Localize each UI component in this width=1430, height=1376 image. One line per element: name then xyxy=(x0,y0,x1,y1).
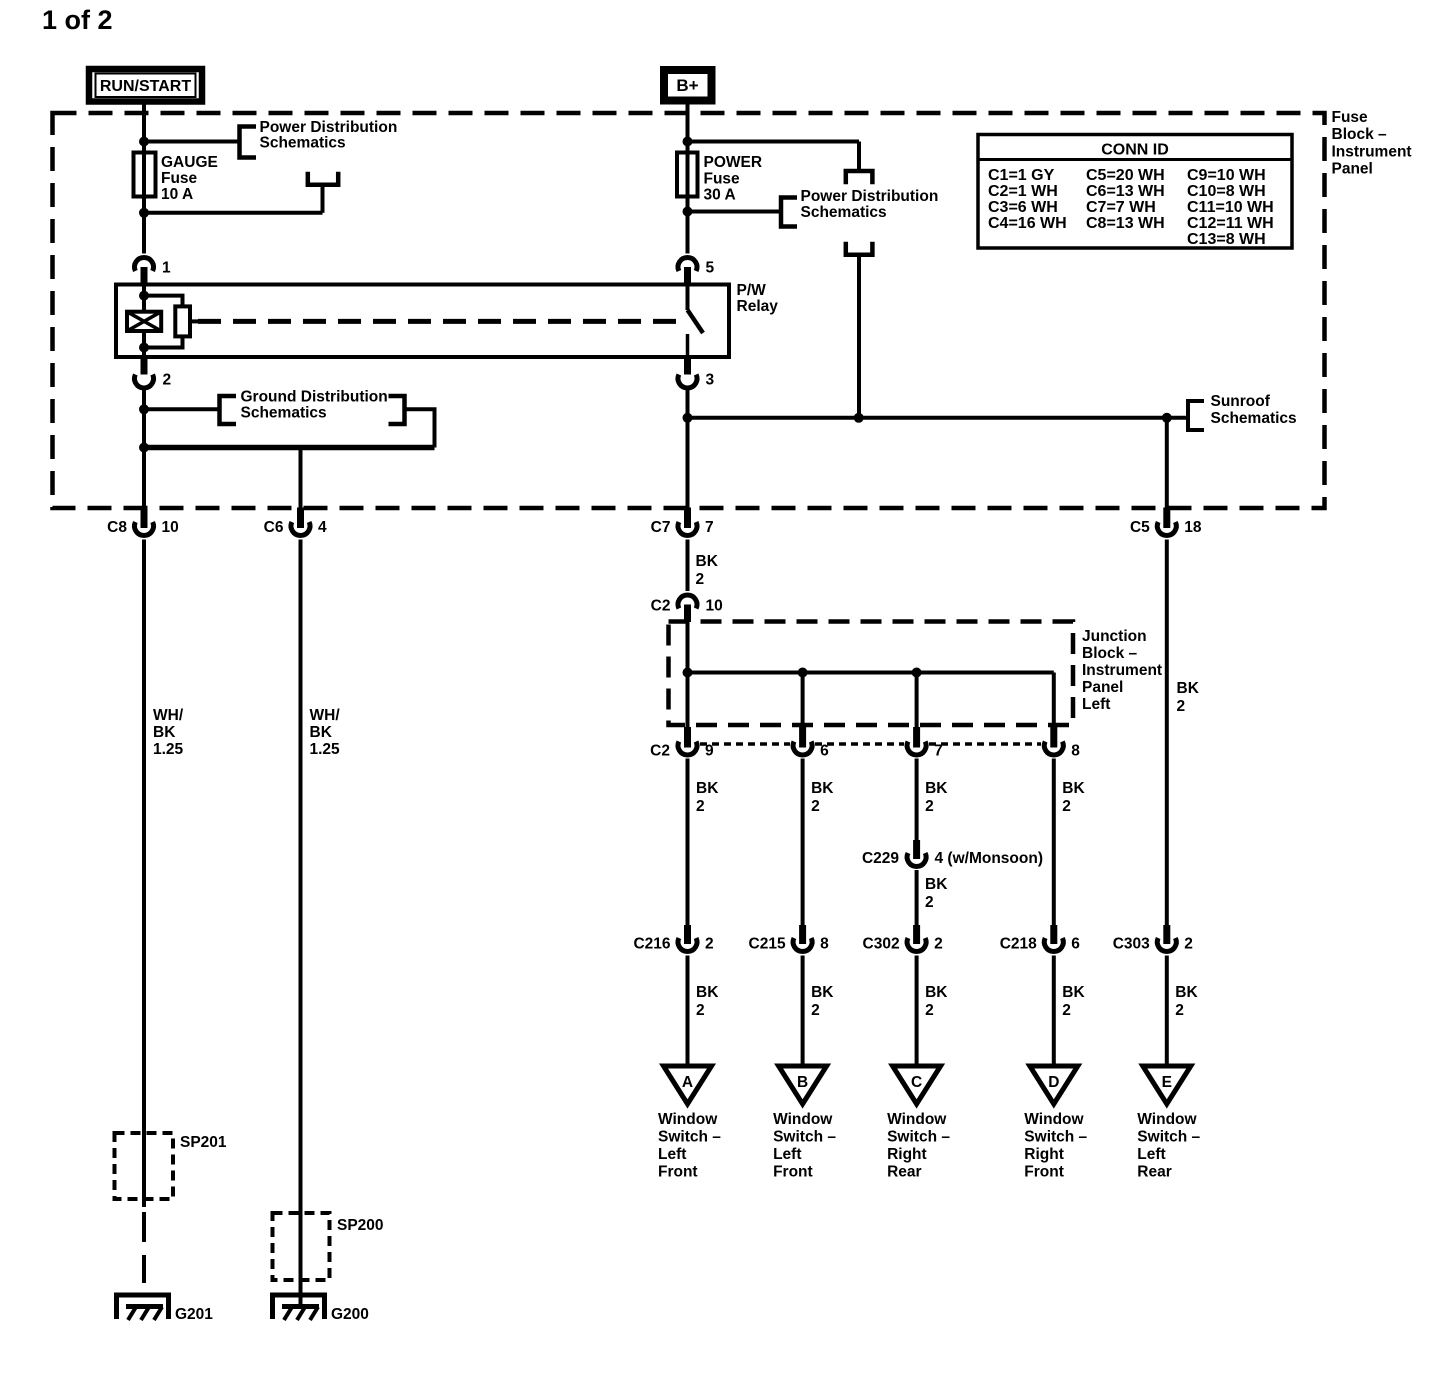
svg-text:1.25: 1.25 xyxy=(153,741,184,758)
svg-text:Ground Distribution: Ground Distribution xyxy=(241,389,388,406)
ground G201 xyxy=(117,1295,169,1320)
off-page triangle B xyxy=(779,1066,827,1104)
wire Ground Distribution return loop xyxy=(142,409,435,447)
wire label BK 2 xyxy=(1175,984,1198,1019)
label POWER Fuse 30 A xyxy=(704,154,763,204)
svg-text:C: C xyxy=(911,1074,922,1091)
svg-text:Left: Left xyxy=(773,1146,801,1163)
svg-text:2: 2 xyxy=(696,1002,705,1019)
svg-text:C2=1 WH: C2=1 WH xyxy=(988,183,1058,200)
connector C302 pin 2 xyxy=(907,925,926,951)
svg-text:Switch –: Switch – xyxy=(1024,1129,1087,1146)
label GAUGE Fuse 10 A xyxy=(161,154,218,203)
svg-text:8: 8 xyxy=(1071,743,1080,760)
svg-text:BK: BK xyxy=(1177,680,1200,697)
svg-text:3: 3 xyxy=(706,372,715,389)
svg-text:Schematics: Schematics xyxy=(801,204,887,221)
wire to Power Distribution reference (left) xyxy=(144,140,238,144)
wire label WH/ BK 1.25 (left) xyxy=(153,707,184,758)
wire label BK 2 (C5 segment) xyxy=(1177,680,1200,715)
terminal RUN/START xyxy=(89,69,202,102)
svg-text:4 (w/Monsoon): 4 (w/Monsoon) xyxy=(935,850,1044,867)
svg-text:2: 2 xyxy=(1175,1002,1184,1019)
wire C2 pin 8 down xyxy=(1052,759,1056,927)
connector C2 pin 8 (junction block output) xyxy=(1044,727,1063,755)
svg-text:Rear: Rear xyxy=(1137,1164,1171,1181)
svg-text:Schematics: Schematics xyxy=(260,135,346,152)
svg-text:BK: BK xyxy=(1175,984,1198,1001)
connector C6 pin 4 xyxy=(291,508,310,536)
wire B+ to POWER fuse xyxy=(683,102,693,254)
wire ground bus down to C6 xyxy=(299,448,303,511)
svg-text:Instrument: Instrument xyxy=(1082,662,1162,679)
svg-text:BK: BK xyxy=(696,984,719,1001)
wire label BK 2 (C7 segment) xyxy=(696,553,719,588)
bracket right for Ground Distribution Schematics xyxy=(389,396,405,424)
wire C229 to C302 xyxy=(915,870,919,926)
off-page triangle E xyxy=(1143,1066,1191,1104)
svg-text:Left: Left xyxy=(1137,1146,1165,1163)
svg-text:Left: Left xyxy=(658,1146,686,1163)
wire label BK 2 xyxy=(925,984,948,1019)
svg-text:POWER: POWER xyxy=(704,154,763,171)
svg-text:BK: BK xyxy=(310,724,333,741)
relay control dashed line xyxy=(198,319,679,324)
svg-text:Front: Front xyxy=(773,1164,813,1181)
svg-text:Power Distribution: Power Distribution xyxy=(801,188,939,205)
svg-text:30 A: 30 A xyxy=(704,187,736,204)
connector C2 pin 10 xyxy=(678,595,697,622)
wire label BK 2 xyxy=(811,780,834,815)
connector pin 3 (relay switch output) xyxy=(678,357,697,388)
wire to window switch xyxy=(1052,956,1056,1074)
svg-text:Window: Window xyxy=(658,1111,718,1128)
wire bus to pin 7 xyxy=(915,673,919,728)
svg-text:6: 6 xyxy=(820,743,829,760)
relay coil xyxy=(127,312,161,331)
svg-text:D: D xyxy=(1048,1074,1059,1091)
connector C2 pin 9 (junction block output) xyxy=(678,727,697,755)
label Ground Distribution Schematics xyxy=(241,389,388,422)
svg-text:RUN/START: RUN/START xyxy=(100,78,191,95)
wire C2 pin 6 down xyxy=(801,759,805,927)
relay switch contact xyxy=(688,285,704,358)
label Junction Block - Instrument Panel Left xyxy=(1082,628,1162,713)
svg-text:Fuse: Fuse xyxy=(704,171,741,188)
wire label BK 2 xyxy=(696,984,719,1019)
connector C8 pin 10 xyxy=(135,508,154,536)
svg-text:C229: C229 xyxy=(862,850,899,867)
wire label BK 2 xyxy=(1062,780,1085,815)
wire to window switch xyxy=(686,956,690,1074)
svg-text:C7: C7 xyxy=(651,519,671,536)
svg-text:2: 2 xyxy=(696,798,705,815)
svg-text:Window: Window xyxy=(887,1111,947,1128)
svg-text:BK: BK xyxy=(696,780,719,797)
wire B+ node to off-page cup (right top) xyxy=(688,142,860,172)
wire node to sunroof reference xyxy=(688,413,1187,423)
svg-text:Right: Right xyxy=(1024,1146,1064,1163)
svg-text:C2: C2 xyxy=(650,743,670,760)
connector C2 dashed tie line xyxy=(700,742,1041,746)
svg-text:A: A xyxy=(682,1074,693,1091)
connector C2 pin 7 (junction block output) xyxy=(907,727,926,755)
wire C7 to junction block C2 xyxy=(686,540,690,592)
svg-text:2: 2 xyxy=(925,798,934,815)
svg-text:6: 6 xyxy=(1071,936,1080,953)
connector C5 pin 18 xyxy=(1157,508,1176,536)
svg-text:C215: C215 xyxy=(749,936,786,953)
svg-text:B: B xyxy=(797,1074,808,1091)
connector C216 pin 2 xyxy=(678,925,697,951)
terminal B+ xyxy=(664,70,712,101)
svg-text:BK: BK xyxy=(925,876,948,893)
svg-text:C2: C2 xyxy=(651,598,671,615)
svg-text:SP201: SP201 xyxy=(180,1134,227,1151)
connector C229 pin 4 xyxy=(907,840,926,866)
svg-text:2: 2 xyxy=(1177,698,1186,715)
wire C2 pin 9 down xyxy=(686,759,690,927)
svg-text:2: 2 xyxy=(925,894,934,911)
bracket for Sunroof Schematics xyxy=(1188,401,1204,430)
svg-text:Switch –: Switch – xyxy=(773,1129,836,1146)
connector pin 5 (relay switch supply) xyxy=(678,258,697,285)
wire fuse output to off-page cup (left) xyxy=(144,185,323,213)
svg-text:C3=6 WH: C3=6 WH xyxy=(988,199,1058,216)
svg-text:Sunroof: Sunroof xyxy=(1211,393,1271,410)
connector pin 2 (relay coil ground) xyxy=(135,357,154,388)
svg-text:2: 2 xyxy=(705,936,714,953)
svg-text:Panel: Panel xyxy=(1082,679,1123,696)
svg-text:Block –: Block – xyxy=(1332,126,1388,143)
CONN ID table xyxy=(978,135,1292,249)
wire C2 pin 7 down to C229 xyxy=(915,759,919,843)
off-page triangle C xyxy=(893,1066,941,1104)
svg-text:Switch –: Switch – xyxy=(658,1129,721,1146)
connector C303 pin 2 xyxy=(1157,925,1176,951)
connector C215 pin 8 xyxy=(793,925,812,951)
label P/W Relay xyxy=(737,282,779,315)
wire label BK 2 xyxy=(1062,984,1085,1019)
svg-text:BK: BK xyxy=(925,984,948,1001)
off-page cup symbol (right top) xyxy=(846,171,873,184)
svg-text:Window: Window xyxy=(1024,1111,1084,1128)
svg-text:C10=8 WH: C10=8 WH xyxy=(1187,183,1266,200)
svg-text:C9=10 WH: C9=10 WH xyxy=(1187,167,1266,184)
wire C5 pin 18 down to C303 xyxy=(1165,540,1169,927)
svg-text:BK: BK xyxy=(811,780,834,797)
svg-text:Window: Window xyxy=(773,1111,833,1128)
off-page triangle D xyxy=(1030,1066,1078,1104)
wire C2 pin 10 through bus to pin 9 xyxy=(686,622,690,727)
dashed wire SP201 to G201 xyxy=(142,1212,146,1283)
wire to window switch xyxy=(1165,956,1169,1074)
svg-text:Schematics: Schematics xyxy=(241,405,327,422)
POWER fuse F2 xyxy=(677,153,698,197)
svg-text:Relay: Relay xyxy=(737,298,779,315)
svg-text:Fuse: Fuse xyxy=(161,170,198,187)
svg-text:10 A: 10 A xyxy=(161,186,193,203)
svg-text:Rear: Rear xyxy=(887,1164,921,1181)
wire bus to pin 6 xyxy=(801,673,805,728)
svg-text:BK: BK xyxy=(925,780,948,797)
splice SP201 dashed box xyxy=(115,1133,174,1199)
svg-text:CONN ID: CONN ID xyxy=(1101,142,1169,159)
svg-text:BK: BK xyxy=(1062,984,1085,1001)
svg-text:E: E xyxy=(1162,1074,1172,1091)
wire relay pin 2 down to C8 xyxy=(139,390,149,510)
label Window Switch B xyxy=(773,1111,836,1181)
svg-text:C1=1 GY: C1=1 GY xyxy=(988,167,1055,184)
svg-text:C216: C216 xyxy=(633,936,670,953)
svg-text:B+: B+ xyxy=(676,76,698,95)
svg-text:C11=10 WH: C11=10 WH xyxy=(1187,199,1274,216)
svg-text:C6=13 WH: C6=13 WH xyxy=(1086,183,1165,200)
svg-text:C12=11 WH: C12=11 WH xyxy=(1187,215,1274,232)
label Power Distribution Schematics (right) xyxy=(801,188,939,221)
bracket for Power Distribution Schematics (left) xyxy=(240,127,257,158)
off-page cup symbol (left) xyxy=(308,172,338,185)
svg-text:2: 2 xyxy=(1062,798,1071,815)
svg-text:C7=7 WH: C7=7 WH xyxy=(1086,199,1156,216)
label Sunroof Schematics xyxy=(1211,393,1297,427)
svg-text:P/W: P/W xyxy=(737,282,767,299)
connector C2 pin 6 (junction block output) xyxy=(793,727,812,755)
svg-text:C218: C218 xyxy=(1000,936,1037,953)
svg-text:C5=20 WH: C5=20 WH xyxy=(1086,167,1165,184)
svg-text:Window: Window xyxy=(1137,1111,1197,1128)
svg-text:GAUGE: GAUGE xyxy=(161,154,218,171)
connector C218 pin 6 xyxy=(1044,925,1063,951)
svg-text:BK: BK xyxy=(696,553,719,570)
wire relay coil vertical xyxy=(139,285,149,358)
svg-text:2: 2 xyxy=(934,936,943,953)
svg-text:7: 7 xyxy=(705,519,714,536)
svg-text:Power Distribution: Power Distribution xyxy=(260,119,398,136)
ground G200 xyxy=(273,1295,325,1320)
splice SP200 dashed box xyxy=(273,1213,330,1280)
svg-text:Instrument: Instrument xyxy=(1332,144,1412,161)
svg-text:Fuse: Fuse xyxy=(1332,109,1369,126)
wire label BK 2 xyxy=(925,780,948,815)
svg-text:18: 18 xyxy=(1184,519,1202,536)
svg-text:BK: BK xyxy=(1062,780,1085,797)
wire to window switch xyxy=(915,956,919,1074)
svg-text:2: 2 xyxy=(1184,936,1193,953)
svg-text:Junction: Junction xyxy=(1082,628,1147,645)
svg-text:C13=8 WH: C13=8 WH xyxy=(1187,231,1266,248)
wire bus to pin 8 xyxy=(1052,673,1056,728)
wire to window switch xyxy=(801,956,805,1074)
svg-text:2: 2 xyxy=(925,1002,934,1019)
wire label WH/ BK 1.25 (second) xyxy=(310,707,341,758)
wire fuse output to Power Distribution reference (right) xyxy=(688,210,780,214)
svg-text:Front: Front xyxy=(1024,1164,1064,1181)
wire to Ground Distribution reference xyxy=(144,407,218,411)
junction block - instrument panel left dashed outline xyxy=(669,622,1074,726)
svg-text:C5: C5 xyxy=(1130,519,1150,536)
svg-text:C8: C8 xyxy=(107,519,127,536)
svg-text:9: 9 xyxy=(705,743,714,760)
svg-text:WH/: WH/ xyxy=(153,707,184,724)
svg-text:2: 2 xyxy=(811,1002,820,1019)
off-page cup symbol (right bottom) xyxy=(846,242,873,255)
relay armature loop xyxy=(144,296,198,348)
svg-text:1.25: 1.25 xyxy=(310,741,341,758)
wire relay pin 3 to C7 and sunroof node xyxy=(683,390,693,510)
wire RUN/START to GAUGE fuse xyxy=(139,102,149,254)
svg-text:4: 4 xyxy=(318,519,327,536)
wire label BK 2 (C229 segment) xyxy=(925,876,948,911)
label Window Switch E xyxy=(1137,1111,1200,1181)
wire label BK 2 xyxy=(811,984,834,1019)
svg-text:10: 10 xyxy=(706,598,723,615)
wire C8 pin 10 down to SP201 xyxy=(142,540,146,1208)
connector C7 pin 7 xyxy=(678,508,697,536)
bracket for Power Distribution Schematics (right) xyxy=(781,198,797,227)
junction block internal bus xyxy=(683,668,1054,678)
svg-text:2: 2 xyxy=(696,571,705,588)
svg-text:Front: Front xyxy=(658,1164,698,1181)
svg-text:Left: Left xyxy=(1082,696,1110,713)
P/W relay K1 box xyxy=(116,285,729,358)
wire off-page cup down to relay output node xyxy=(857,255,861,418)
svg-text:C303: C303 xyxy=(1113,936,1150,953)
svg-text:C8=13 WH: C8=13 WH xyxy=(1086,215,1165,232)
svg-text:Panel: Panel xyxy=(1332,161,1373,178)
wire node down to C5 xyxy=(1165,418,1169,510)
label Window Switch C xyxy=(887,1111,950,1181)
svg-text:C302: C302 xyxy=(863,936,900,953)
svg-text:SP200: SP200 xyxy=(337,1217,384,1234)
wire C6 pin 4 down to G200 xyxy=(299,540,303,1308)
svg-text:2: 2 xyxy=(811,798,820,815)
svg-text:1: 1 xyxy=(162,260,171,277)
svg-text:WH/: WH/ xyxy=(310,707,341,724)
label Window Switch D xyxy=(1024,1111,1087,1181)
label Window Switch A xyxy=(658,1111,721,1181)
svg-text:BK: BK xyxy=(811,984,834,1001)
svg-text:10: 10 xyxy=(162,519,179,536)
svg-text:G201: G201 xyxy=(175,1306,213,1323)
wire label BK 2 xyxy=(696,780,719,815)
svg-text:G200: G200 xyxy=(331,1306,369,1323)
label Power Distribution Schematics (left) xyxy=(260,119,398,152)
svg-text:1 of 2: 1 of 2 xyxy=(42,5,113,35)
svg-text:BK: BK xyxy=(153,724,176,741)
off-page triangle A xyxy=(664,1066,712,1104)
svg-text:2: 2 xyxy=(1062,1002,1071,1019)
bracket left for Ground Distribution Schematics xyxy=(220,396,237,424)
svg-text:8: 8 xyxy=(820,936,829,953)
label Fuse Block - Instrument Panel xyxy=(1332,109,1412,178)
connector pin 1 (relay coil supply) xyxy=(134,258,153,285)
svg-text:Switch –: Switch – xyxy=(1137,1129,1200,1146)
fuse block - instrument panel dashed outline xyxy=(53,113,1325,508)
svg-text:C6: C6 xyxy=(264,519,284,536)
svg-text:Block –: Block – xyxy=(1082,645,1138,662)
svg-text:Switch –: Switch – xyxy=(887,1129,950,1146)
GAUGE fuse F1 xyxy=(134,153,156,197)
svg-text:5: 5 xyxy=(706,260,715,277)
svg-text:7: 7 xyxy=(934,743,943,760)
svg-text:2: 2 xyxy=(163,372,172,389)
svg-text:C4=16 WH: C4=16 WH xyxy=(988,215,1067,232)
svg-text:Schematics: Schematics xyxy=(1211,410,1297,427)
svg-text:Right: Right xyxy=(887,1146,927,1163)
